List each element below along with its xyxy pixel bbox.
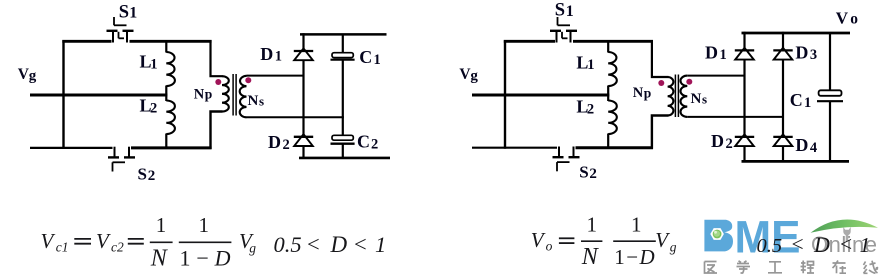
wire: primary bottom lead <box>211 112 223 150</box>
svg-text:C: C <box>790 90 803 110</box>
svg-text:0.5: 0.5 <box>274 232 302 257</box>
svg-text:S: S <box>138 164 147 183</box>
wire: Vg+ line (right) <box>472 94 609 97</box>
svg-text:1: 1 <box>129 5 137 22</box>
transistor S1 (MOSFET in top rail) <box>107 17 134 43</box>
logo green arc <box>811 220 879 233</box>
svg-text:g: g <box>670 240 677 255</box>
svg-text:1: 1 <box>720 47 727 63</box>
svg-text:s: s <box>702 92 707 107</box>
svg-text:2: 2 <box>726 136 733 152</box>
inductor L1 (right) <box>608 52 617 86</box>
inductor L2 (right) <box>608 101 617 135</box>
svg-text:1 − D: 1 − D <box>180 245 231 270</box>
wire: top rail right segment <box>573 40 653 43</box>
wire: primary top lead (right) <box>652 40 669 77</box>
wire: L column top lead (right) <box>607 40 609 53</box>
svg-text:D: D <box>268 132 281 152</box>
wire: diode branch vertical <box>302 33 304 51</box>
svg-text:c2: c2 <box>111 240 124 255</box>
char 医 <box>705 262 718 274</box>
svg-text:<: < <box>792 232 804 256</box>
wire: secondary bottom lead / mid node line <box>247 116 344 118</box>
inductor L2 <box>166 101 175 135</box>
svg-text:1: 1 <box>566 3 574 20</box>
svg-text:V: V <box>531 228 546 252</box>
svg-text:V: V <box>655 228 670 252</box>
wire: L1-L2 mid junction <box>165 86 167 102</box>
svg-text:1: 1 <box>374 52 381 68</box>
svg-text:D: D <box>711 131 724 151</box>
transformer core <box>232 74 234 116</box>
svg-text:N: N <box>248 93 259 109</box>
logo wrench icon <box>843 227 850 242</box>
wire: top rail right segment to transformer <box>130 40 212 43</box>
svg-text:N: N <box>194 86 205 102</box>
wire: left vertical rail (Vg- to top rail) <box>62 40 64 149</box>
svg-text:c1: c1 <box>56 240 69 255</box>
wire: L2 bottom lead <box>165 134 167 150</box>
svg-text:D: D <box>260 44 273 64</box>
svg-text:4: 4 <box>810 140 817 156</box>
wire: L1-L2 mid junction (right) <box>607 86 609 102</box>
transistor S1 (right) <box>550 17 577 43</box>
svg-text:1: 1 <box>804 95 811 111</box>
svg-text:<: < <box>307 232 320 257</box>
svg-text:D: D <box>705 42 718 62</box>
wire: top rail left segment <box>504 40 555 43</box>
char 程 <box>801 261 815 274</box>
svg-text:V: V <box>41 229 56 253</box>
svg-text:g: g <box>470 68 478 84</box>
svg-text:o: o <box>850 11 858 28</box>
svg-text:S: S <box>119 2 129 22</box>
transistor S2 (MOSFET in bottom rail, mirrored) <box>108 147 135 172</box>
svg-text:N: N <box>581 244 600 270</box>
winding Ns <box>240 76 247 118</box>
svg-text:1: 1 <box>150 56 157 72</box>
svg-text:s: s <box>259 93 264 108</box>
wire: bridge branch 2 vertical <box>782 32 784 51</box>
winding Np (right) <box>668 77 674 116</box>
svg-text:N: N <box>691 91 702 107</box>
svg-text:1: 1 <box>587 213 598 237</box>
svg-text:V: V <box>836 9 849 28</box>
winding Ns (right) <box>680 76 687 117</box>
svg-text:C: C <box>357 132 370 152</box>
diode D3 <box>773 48 792 60</box>
wire: Vg+ line <box>30 94 167 97</box>
svg-text:N: N <box>150 245 169 271</box>
wire: bottom rail right of S2 to transformer <box>131 146 212 149</box>
formula right: Vo = (1/N)(1/(1-D))Vg <box>531 213 870 270</box>
svg-text:2: 2 <box>589 166 597 182</box>
inductor L1 <box>166 52 175 86</box>
svg-text:1: 1 <box>631 213 642 237</box>
svg-text:<: < <box>354 232 367 257</box>
wire: L2 bottom lead (right) <box>607 134 609 149</box>
wire: bridge bottom rail <box>742 160 850 163</box>
wire: secondary top lead to bridge (right) <box>687 75 744 77</box>
svg-text:g: g <box>29 68 37 84</box>
wire: output bottom rail <box>299 157 390 160</box>
capacitor C1 <box>331 53 355 60</box>
svg-text:2: 2 <box>587 101 594 117</box>
wire: bottom rail right of S2 (right) <box>576 146 654 149</box>
svg-text:S: S <box>579 162 588 181</box>
char 在 <box>833 261 847 274</box>
logo B block <box>704 220 733 252</box>
svg-text:C: C <box>359 47 372 67</box>
svg-text:1: 1 <box>375 232 386 257</box>
wire: output top rail <box>300 33 387 36</box>
svg-text:D: D <box>795 135 808 155</box>
capacitor C1 (right) <box>817 90 843 101</box>
wire: Vg- line left of S2 <box>30 147 113 149</box>
char 线 <box>864 261 878 274</box>
polarity dot Np (right) <box>658 80 664 86</box>
logo Chinese caption: 医学工程在线 drawn as strokes <box>705 261 878 274</box>
wire: bridge branch 1 vertical <box>743 32 745 51</box>
svg-text:D: D <box>795 42 808 62</box>
svg-text:1: 1 <box>587 57 594 73</box>
char 学 <box>737 261 751 273</box>
svg-text:2: 2 <box>283 137 290 153</box>
diode D4 <box>773 134 792 146</box>
wire: secondary top lead to diode branch <box>247 75 304 77</box>
diode D2 <box>294 134 313 146</box>
svg-text:1: 1 <box>156 213 167 237</box>
wire: secondary bottom lead to bridge (right) <box>687 116 783 118</box>
wire: primary bottom lead (right) <box>652 116 669 149</box>
transistor S2 (right, mirrored) <box>553 147 580 172</box>
svg-text:2: 2 <box>150 101 157 117</box>
svg-text:D: D <box>330 232 348 257</box>
svg-text:1: 1 <box>199 213 210 237</box>
svg-text:D: D <box>813 232 830 257</box>
svg-text:2: 2 <box>148 168 156 184</box>
wire: left vertical rail <box>504 40 506 149</box>
wire: output capacitor verticals <box>829 33 831 90</box>
diode D1 (right) <box>735 48 754 60</box>
svg-text:1 − D: 1 − D <box>614 245 655 269</box>
diode D1 <box>294 48 313 60</box>
svg-text:o: o <box>546 239 553 254</box>
svg-text:N: N <box>633 85 644 101</box>
char 工 <box>768 262 782 273</box>
svg-text:p: p <box>644 86 652 101</box>
svg-text:1: 1 <box>860 233 871 257</box>
svg-text:V: V <box>96 229 111 253</box>
polarity dot Np <box>215 79 221 85</box>
wire: L column top lead <box>165 40 167 53</box>
svg-text:0.5: 0.5 <box>757 235 783 257</box>
diode D2 (right) <box>735 134 754 146</box>
winding Np <box>222 76 229 111</box>
svg-text:3: 3 <box>810 47 817 63</box>
formula left: Vc1 = Vc2 = (1/N)(1/(1-D))Vg <box>41 213 387 271</box>
svg-text:1: 1 <box>275 49 282 65</box>
svg-text:S: S <box>555 1 565 21</box>
svg-text:<: < <box>840 232 852 256</box>
capacitor C2 <box>331 135 355 143</box>
wire: top rail left segment <box>62 40 111 43</box>
wire: Vg- line left of S2 (right) <box>472 147 557 149</box>
svg-text:g: g <box>249 241 256 256</box>
svg-text:2: 2 <box>371 136 378 152</box>
polarity dot Ns <box>245 77 251 83</box>
svg-text:p: p <box>205 87 213 102</box>
wire: bridge top rail <box>742 32 851 35</box>
polarity dot Ns (right) <box>686 79 692 85</box>
wire: primary top lead <box>211 40 223 76</box>
wire: capacitor branch verticals <box>342 34 344 53</box>
transformer core (right) <box>674 75 676 118</box>
